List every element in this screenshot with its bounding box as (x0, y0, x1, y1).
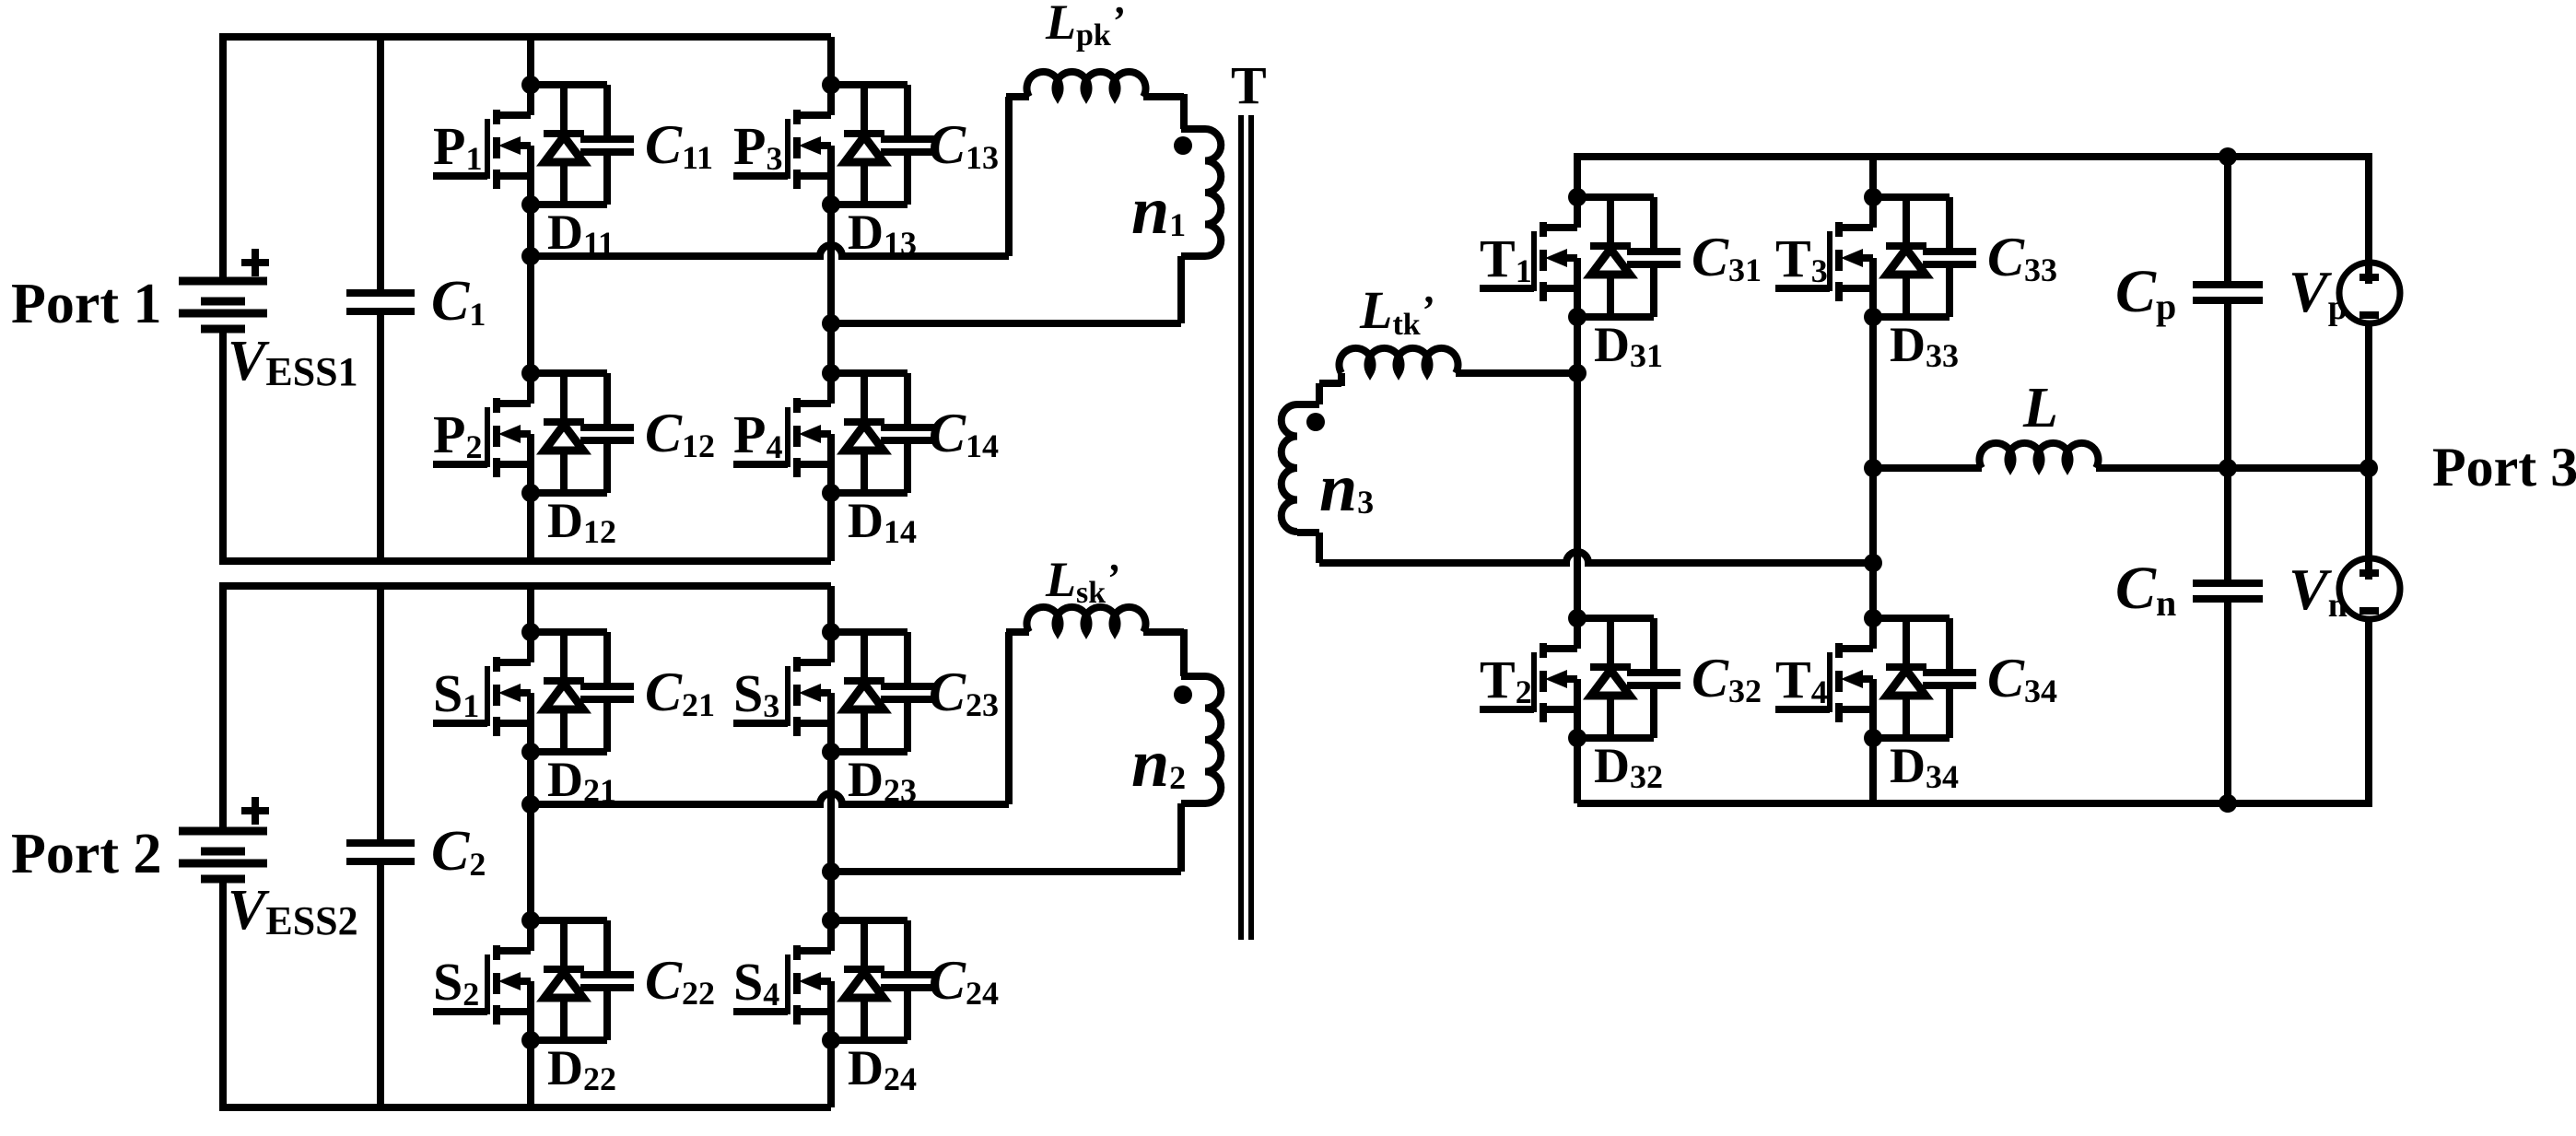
transistor P1 (MOSFET) (433, 85, 531, 205)
capacitor C21 (snubber) (580, 632, 715, 752)
node: P4 drain junction (822, 364, 840, 382)
capacitor C34 (snubber) (1923, 618, 2057, 738)
source Vp plus mark (2359, 274, 2379, 281)
node: S1 source junction (521, 743, 540, 761)
inductor Ltk' (1340, 348, 1458, 373)
svg-text:P1: P1 (433, 116, 482, 177)
svg-text:D31: D31 (1594, 317, 1663, 374)
wire: Lpk to n1 top (1143, 93, 1184, 100)
wire: Port 1 left branch (battery) bottom (219, 329, 227, 565)
svg-text:Port 1: Port 1 (11, 273, 162, 335)
wire: P1 cell bottom bar (531, 201, 607, 208)
node: S2 source junction (521, 1031, 540, 1049)
diode D31 (anti-parallel) (1590, 197, 1663, 374)
wire: leg A S1-source to midpoint (527, 752, 534, 920)
wire: leg2 T3-source to T4 (1869, 317, 1877, 618)
svg-text:C32: C32 (1692, 648, 1762, 709)
transistor T2 (MOSFET) (1480, 618, 1577, 738)
wire: P2 cell bottom bar (531, 489, 607, 497)
node: T1/T2 midpoint (1568, 364, 1587, 382)
svg-text:C23: C23 (929, 662, 999, 723)
inductor L (1980, 443, 2099, 468)
wire: leg A P1-source to midpoint (527, 205, 534, 373)
diode D12 (anti-parallel) (544, 373, 616, 550)
wire: T1 cell top bar (1577, 193, 1654, 201)
wire: T2 cell bottom bar (1577, 734, 1654, 742)
wire: Cn branch top (2224, 468, 2231, 583)
node: Port1 bridge midpoint B (to n1 return) (822, 314, 840, 333)
svg-text:Port 3: Port 3 (2432, 437, 2576, 498)
wire: Lpk riser vertical (1005, 97, 1013, 256)
wire: n3 top to Ltk (1297, 401, 1319, 408)
wire: Port2 midpoint A to Lsk riser (hops over leg B) (531, 793, 1009, 804)
transformer winding n1 (1205, 129, 1221, 256)
svg-text:C34: C34 (1987, 648, 2057, 709)
wire: P3 cell top bar (831, 81, 907, 88)
node: Port1 bridge midpoint A (521, 247, 540, 265)
wire: leg A P2-source to bottom rail (527, 493, 534, 561)
wire: S2 cell bottom bar (531, 1036, 607, 1044)
node: T1 drain junction (1568, 188, 1587, 206)
wire: Ltk to T1/T2 midpoint (1456, 369, 1577, 377)
svg-text:T1: T1 (1480, 228, 1532, 289)
wire: Cn branch bottom (2224, 599, 2231, 803)
svg-text:T: T (1231, 55, 1267, 115)
capacitor C2 (346, 839, 415, 847)
svg-text:C21: C21 (645, 662, 715, 723)
node: mid node at Vp/Vn (2359, 459, 2378, 477)
wire: Port 2 bottom rail (223, 1104, 831, 1111)
node: S3 source junction (822, 743, 840, 761)
battery V_ESS1 plus sign (241, 259, 269, 266)
svg-text:n1: n1 (1131, 173, 1186, 249)
capacitor C1 (346, 289, 415, 297)
inductor Lpk' (1027, 72, 1146, 97)
wire: T2 cell top bar (1577, 615, 1654, 622)
diode D22 (anti-parallel) (544, 920, 616, 1097)
transistor T1 (MOSFET) (1480, 197, 1577, 317)
node: S1 drain junction (521, 623, 540, 641)
wire: P1 cell top bar (531, 81, 607, 88)
transformer core T (double bars) (1238, 115, 1244, 940)
wire: Lsk to n2 top (1143, 628, 1184, 636)
wire: Port 2 left branch top (219, 582, 227, 831)
wire: leg2 T4-source to bottom rail (1869, 738, 1877, 803)
wire: P2 cell top bar (531, 369, 607, 377)
diode D14 (anti-parallel) (844, 373, 917, 550)
node: P1 drain junction (521, 76, 540, 94)
diode D33 (anti-parallel) (1886, 197, 1959, 374)
wire: Cp branch bottom (2224, 300, 2231, 468)
transformer winding n3 (1282, 404, 1297, 532)
wire: Port 2 top rail (223, 582, 831, 590)
battery V_ESS2 plus sign (241, 807, 269, 814)
svg-text:S3: S3 (733, 663, 779, 724)
capacitor C14 (snubber) (881, 373, 999, 493)
diode D32 (anti-parallel) (1590, 618, 1663, 795)
svg-text:Port 2: Port 2 (11, 823, 162, 885)
transistor S3 (MOSFET) (733, 632, 831, 752)
node: T4 drain junction (1864, 609, 1882, 627)
wire: Port 1 top rail (223, 33, 831, 41)
wire: leg A S2-source to bottom rail (527, 1040, 534, 1107)
svg-text:Vp: Vp (2289, 259, 2348, 327)
wire: Vp branch from top rail (2365, 153, 2372, 284)
node: n2 polarity dot (1174, 685, 1192, 704)
node: T3 source junction (1864, 308, 1882, 326)
node: P1 source junction (521, 195, 540, 214)
diode D11 (anti-parallel) (544, 85, 615, 262)
svg-text:Cp: Cp (2115, 258, 2176, 327)
wire: T3 cell bottom bar (1873, 313, 1950, 321)
svg-text:n2: n2 (1131, 726, 1186, 802)
wire: Port 1 bottom rail (223, 557, 831, 565)
wire: Port 3 bottom rail (1577, 800, 2369, 807)
node: T2 drain junction (1568, 609, 1587, 627)
svg-text:S2: S2 (433, 952, 479, 1013)
svg-text:C33: C33 (1987, 227, 2057, 288)
svg-text:VESS2: VESS2 (228, 879, 358, 943)
wire: P3 cell bottom bar (831, 201, 907, 208)
svg-text:Cn: Cn (2115, 555, 2176, 624)
svg-text:C31: C31 (1692, 227, 1762, 288)
diode D21 (anti-parallel) (544, 632, 616, 809)
transistor T3 (MOSFET) (1775, 197, 1873, 317)
capacitor C32 (snubber) (1627, 618, 1762, 738)
wire: capacitor C2 branch bottom (377, 861, 384, 1107)
wire: n3 bottom exit (1297, 529, 1319, 536)
node: n3 polarity dot (1306, 413, 1325, 431)
svg-text:C11: C11 (645, 114, 713, 176)
svg-text:Lpk’: Lpk’ (1045, 0, 1124, 53)
node: P3 source junction (822, 195, 840, 214)
wire: T3 cell top bar (1873, 193, 1950, 201)
diode D23 (anti-parallel) (844, 632, 917, 809)
svg-text:C1: C1 (431, 270, 486, 333)
source Vn minus mark (2359, 607, 2379, 615)
wire: n3 return to T3/T4 midpoint (hops over T1/T2 leg) (1319, 552, 1873, 563)
node: T3 drain junction (1864, 188, 1882, 206)
capacitor C33 (snubber) (1923, 197, 2057, 317)
wire: L to output mid node (2096, 464, 2369, 472)
wire: S2 cell top bar (531, 917, 607, 924)
svg-text:Vn: Vn (2289, 556, 2348, 625)
svg-text:P2: P2 (433, 404, 482, 465)
svg-text:D12: D12 (547, 493, 616, 550)
capacitor C12 (snubber) (580, 373, 715, 493)
wire: leg B S4-source to bottom rail (827, 1040, 835, 1107)
node: n1 polarity dot (1174, 136, 1192, 155)
capacitor Cn (2193, 580, 2263, 587)
svg-text:D32: D32 (1594, 738, 1663, 795)
wire: T4 cell bottom bar (1873, 734, 1950, 742)
svg-text:P3: P3 (733, 116, 782, 177)
wire: leg1 T2-source to bottom rail (1574, 738, 1581, 803)
node: Port2 bridge midpoint A (521, 795, 540, 814)
node: T3/T4 midpoint (L connection) (1864, 459, 1882, 477)
wire: n1 bottom exit (1181, 252, 1205, 260)
wire: midpoint A to Lpk riser (hops over leg B) (531, 245, 1009, 256)
node: S2 drain junction (521, 911, 540, 930)
svg-text:C22: C22 (645, 950, 715, 1012)
wire: P4 cell top bar (831, 369, 907, 377)
svg-text:P4: P4 (733, 404, 782, 465)
svg-text:D24: D24 (848, 1040, 917, 1097)
svg-text:D21: D21 (547, 752, 616, 809)
svg-text:D14: D14 (848, 493, 917, 550)
wire: T1 cell bottom bar (1577, 313, 1654, 321)
transistor S1 (MOSFET) (433, 632, 531, 752)
node: P2 drain junction (521, 364, 540, 382)
source Vp minus mark (2359, 311, 2379, 319)
battery VESS1 (ESS1) (179, 281, 267, 329)
wire: Port1 leg A top (rail to P1) (527, 37, 534, 85)
transistor P3 (MOSFET) (733, 85, 831, 205)
svg-text:C13: C13 (929, 114, 999, 176)
wire: Port 1 left branch (battery) top (219, 33, 227, 281)
svg-text:T3: T3 (1775, 228, 1828, 289)
node: P2 source junction (521, 484, 540, 502)
transistor P4 (MOSFET) (733, 373, 831, 493)
capacitor Cp (2193, 281, 2263, 288)
wire: Cp branch top (2224, 157, 2231, 285)
wire: Port2 leg A top (rail to S1) (527, 586, 534, 632)
wire: leg2 top (rail to T3) (1869, 157, 1877, 197)
node: Port2 bridge midpoint B (to n2 return) (822, 862, 840, 881)
wire: S3 cell bottom bar (831, 748, 907, 755)
wire: T4 cell top bar (1873, 615, 1950, 622)
wire: Vp to mid node (2365, 323, 2372, 468)
svg-text:T4: T4 (1775, 650, 1828, 710)
node: Cn bottom rail junction (2219, 794, 2237, 813)
wire: T3/T4 midpoint to L (1873, 464, 1982, 472)
node: Cp top rail junction (2219, 147, 2237, 166)
node: P3 drain junction (822, 76, 840, 94)
wire: leg1 top (rail to T1) (1574, 153, 1581, 197)
diode D13 (anti-parallel) (844, 85, 917, 262)
transistor S2 (MOSFET) (433, 920, 531, 1040)
svg-text:T2: T2 (1480, 650, 1532, 710)
transistor S4 (MOSFET) (733, 920, 831, 1040)
transistor T4 (MOSFET) (1775, 618, 1873, 738)
svg-text:VESS1: VESS1 (228, 330, 358, 394)
wire: Port 3 top rail (1577, 153, 2369, 160)
capacitor C23 (snubber) (881, 632, 999, 752)
capacitor C31 (snubber) (1627, 197, 1762, 317)
svg-text:Lsk’: Lsk’ (1045, 552, 1119, 610)
wire: leg1 T1-source to T2 (1574, 317, 1581, 618)
wire: Lsk riser vertical (1005, 632, 1013, 804)
transformer winding n2 (1205, 676, 1221, 803)
capacitor C2 branch top wire (377, 586, 384, 843)
node: S4 drain junction (822, 911, 840, 930)
svg-text:S4: S4 (733, 952, 779, 1013)
node: mid node at Cp/Cn (2219, 459, 2237, 477)
capacitor C11 (snubber) (580, 85, 713, 205)
svg-text:L: L (2022, 377, 2058, 439)
node: S3 drain junction (822, 623, 840, 641)
wire: n1 return to midpoint B (831, 320, 1181, 327)
node: T1 source junction (1568, 308, 1587, 326)
wire: Port 2 left branch bottom (219, 879, 227, 1111)
wire: capacitor C1 branch bottom (377, 311, 384, 561)
source Vn (circle) (2339, 558, 2400, 619)
wire: leg B P4-source to bottom rail (827, 493, 835, 561)
svg-text:C12: C12 (645, 403, 715, 464)
wire: leg B S3-source to midpoint (827, 752, 835, 920)
diode D34 (anti-parallel) (1886, 618, 1959, 795)
wire: Port1 leg B top (rail to P3) (827, 37, 835, 85)
capacitor C13 (snubber) (881, 85, 999, 205)
node: S4 source junction (822, 1031, 840, 1049)
wire: S3 cell top bar (831, 628, 907, 636)
diode D24 (anti-parallel) (844, 920, 917, 1097)
source Vp (circle) (2339, 263, 2400, 323)
wire: Vn to bottom rail (2365, 619, 2372, 807)
svg-text:Ltk’: Ltk’ (1359, 280, 1434, 342)
wire: S4 cell bottom bar (831, 1036, 907, 1044)
node: T2 source junction (1568, 729, 1587, 747)
capacitor C24 (snubber) (881, 920, 999, 1040)
node: P4 source junction (822, 484, 840, 502)
wire: n2 bottom exit (1181, 800, 1205, 807)
wire: S1 cell bottom bar (531, 748, 607, 755)
wire: Port2 leg B top (rail to S3) (827, 586, 835, 632)
wire: n2 return to midpoint B (831, 868, 1181, 875)
node: T4 source junction (1864, 729, 1882, 747)
battery VESS2 (ESS2) (179, 831, 267, 879)
wire: mid node to Vn (2365, 468, 2372, 580)
wire: leg B P3-source to midpoint (827, 205, 835, 373)
transistor P2 (MOSFET) (433, 373, 531, 493)
inductor Lsk' (1027, 607, 1146, 632)
svg-text:D34: D34 (1890, 738, 1959, 795)
svg-text:D33: D33 (1890, 317, 1959, 374)
source Vn plus mark (2359, 569, 2379, 577)
svg-text:C2: C2 (431, 820, 486, 883)
svg-text:S1: S1 (433, 663, 479, 724)
node: T3/T4 midpoint (n3 return) (1864, 554, 1882, 572)
svg-text:D22: D22 (547, 1040, 616, 1097)
wire: P4 cell bottom bar (831, 489, 907, 497)
wire: riser to Lsk (1006, 628, 1029, 636)
wire: S1 cell top bar (531, 628, 607, 636)
capacitor C1 branch top wire (377, 37, 384, 293)
svg-text:D23: D23 (848, 752, 917, 809)
svg-text:C24: C24 (929, 950, 999, 1012)
wire: S4 cell top bar (831, 917, 907, 924)
svg-text:n3: n3 (1319, 451, 1374, 526)
capacitor C22 (snubber) (580, 920, 715, 1040)
wire: riser to Lpk (1006, 93, 1029, 100)
svg-text:C14: C14 (929, 403, 999, 464)
